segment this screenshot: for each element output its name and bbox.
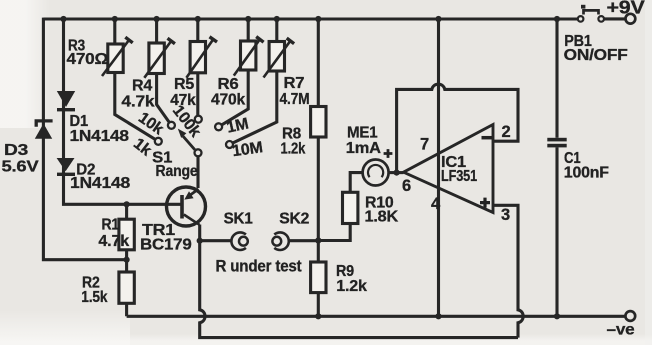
node bottom rail / pin4 line bbox=[435, 313, 441, 319]
svg-text:1.2k: 1.2k bbox=[281, 141, 306, 158]
switch S1 contact 1k bbox=[155, 138, 162, 145]
svg-text:2: 2 bbox=[502, 123, 511, 141]
svg-text:Range: Range bbox=[156, 163, 198, 180]
wire IC1 pin 3 stub down to return line with hop over bottom rail bbox=[493, 205, 523, 337]
svg-text:D3: D3 bbox=[4, 142, 28, 159]
wire R4 branch to S1 contact 10k bbox=[157, 19, 170, 122]
svg-text:R6: R6 bbox=[218, 76, 239, 93]
wire R1/R2 branch bbox=[125, 204, 128, 316]
svg-text:470Ω: 470Ω bbox=[67, 51, 109, 68]
svg-text:ME1: ME1 bbox=[347, 124, 378, 141]
node R1 top bbox=[124, 201, 130, 207]
wire ME1 output to IC1 pin 6 bbox=[389, 171, 404, 174]
svg-text:BC179: BC179 bbox=[140, 237, 192, 254]
resistor R3 body bbox=[108, 44, 123, 73]
resistor R2 body bbox=[119, 272, 134, 303]
preset arrow R7 bbox=[264, 41, 291, 78]
zener diode D3 bbox=[35, 121, 53, 139]
svg-text:R5: R5 bbox=[174, 76, 194, 93]
svg-text:1N4148: 1N4148 bbox=[70, 175, 130, 192]
node TR1 collector / SK1 bbox=[197, 238, 203, 244]
capacitor C1 plates bbox=[547, 138, 566, 148]
svg-text:470k: 470k bbox=[211, 92, 245, 109]
wire R5 branch to S1 contact 100k bbox=[196, 19, 199, 116]
svg-text:1N4148: 1N4148 bbox=[70, 128, 130, 145]
wire D1/D2 branch down to TR1 base bbox=[64, 19, 181, 204]
socket SK1 bbox=[231, 232, 247, 250]
plus sign at ME1 bbox=[384, 149, 393, 158]
switch S1 wiper arrow bbox=[178, 129, 195, 150]
resistor R7 body bbox=[269, 42, 284, 72]
op-amp U1 IC1 triangle bbox=[404, 125, 494, 213]
svg-text:1mA: 1mA bbox=[346, 140, 382, 157]
wire feedback loop pin 6 to pin 2 with hop over pin7 line bbox=[397, 84, 518, 172]
wire SK2 to R8/R9 node bbox=[288, 239, 318, 242]
svg-text:4.7k: 4.7k bbox=[121, 94, 154, 111]
preset arrow R3 bbox=[102, 40, 129, 76]
wire S1 pole to TR1 emitter bbox=[196, 156, 199, 188]
transistor TR1 bbox=[167, 187, 206, 226]
svg-text:R1: R1 bbox=[102, 217, 120, 234]
svg-text:1.5k: 1.5k bbox=[81, 289, 107, 306]
switch S1 pole bbox=[195, 149, 202, 156]
svg-text:4: 4 bbox=[431, 195, 441, 213]
meter ME1 bbox=[363, 160, 389, 186]
resistor R9 body bbox=[311, 262, 326, 293]
preset arrow R4 bbox=[144, 41, 171, 78]
node bottom rail / C1 bbox=[554, 313, 560, 319]
preset arrow R5 bbox=[186, 39, 213, 77]
resistor R8 body bbox=[311, 107, 326, 138]
svg-text:ON/OFF: ON/OFF bbox=[564, 47, 628, 64]
node ME1 / pin 6 / feedback bbox=[394, 170, 400, 176]
diode D2 bbox=[57, 158, 75, 176]
socket SK2 bbox=[272, 232, 288, 250]
wire R8/R9 node to R10 and up to ME1 bbox=[318, 173, 362, 241]
svg-text:6: 6 bbox=[402, 177, 411, 195]
node SK2 / R8 / R9 / R10 bbox=[315, 237, 321, 243]
node top rail / R3 bbox=[112, 16, 118, 22]
svg-text:4.7M: 4.7M bbox=[280, 91, 310, 108]
node top rail / D1 branch bbox=[60, 16, 66, 22]
svg-text:1.8K: 1.8K bbox=[365, 209, 399, 226]
node top rail / R7 bbox=[274, 16, 280, 22]
svg-text:4.7k: 4.7k bbox=[98, 233, 129, 250]
svg-text:SK1: SK1 bbox=[224, 210, 253, 227]
node top rail / R8 bbox=[315, 16, 321, 22]
node top rail / pin7 line bbox=[435, 16, 441, 22]
node top rail / R4 bbox=[154, 16, 160, 22]
wire C1 branch lower bbox=[555, 147, 558, 316]
resistor R4 body bbox=[149, 43, 164, 74]
svg-text:R4: R4 bbox=[132, 78, 152, 95]
svg-text:LF351: LF351 bbox=[441, 168, 477, 185]
plus sign inside IC1 bbox=[480, 198, 490, 208]
node top rail / C1 bbox=[554, 16, 560, 22]
minus sign inside IC1 bbox=[482, 136, 493, 140]
node R1/R2 junction bbox=[124, 257, 130, 263]
resistor R1 body bbox=[119, 219, 134, 250]
resistor R6 body bbox=[241, 41, 256, 70]
terminal -ve bbox=[625, 311, 635, 321]
wire R8/R9 branch top rail to bottom rail bbox=[317, 19, 320, 316]
switch S1 contact 10M bbox=[226, 141, 233, 148]
resistor R10 body bbox=[343, 192, 358, 223]
preset arrow R6 bbox=[234, 39, 260, 75]
svg-text:1.2k: 1.2k bbox=[336, 278, 367, 295]
wire TR1 collector down, hop over bottom rail, return line to pin 3 bbox=[200, 225, 518, 338]
svg-text:R under test: R under test bbox=[216, 257, 303, 275]
wire R3 branch to S1 contact 1k bbox=[115, 19, 156, 139]
node top rail / R6 bbox=[245, 16, 251, 22]
svg-text:R7: R7 bbox=[284, 75, 305, 92]
svg-text:–ve: –ve bbox=[607, 322, 635, 339]
wire left branch through D3 down to R1/R2 node bbox=[43, 18, 126, 260]
svg-text:SK2: SK2 bbox=[279, 210, 309, 227]
wire R6 branch to S1 contact 1M bbox=[221, 19, 248, 125]
svg-text:5.6V: 5.6V bbox=[2, 159, 40, 176]
switch S1 contact 100k bbox=[195, 116, 202, 123]
node bottom rail / R9 bbox=[315, 313, 321, 319]
wire TR1 collector node to SK1 bbox=[200, 239, 232, 242]
svg-text:3: 3 bbox=[501, 206, 510, 224]
diode D1 bbox=[57, 91, 75, 111]
wire IC1 pin 7 / pin 4 supply line bbox=[437, 19, 440, 316]
wire top +9V rail bbox=[43, 17, 577, 20]
wire R7 branch to S1 contact 10M bbox=[233, 19, 277, 143]
pushbutton PB1 bbox=[578, 5, 604, 22]
wire bottom -ve rail bbox=[127, 315, 626, 318]
wire C1 branch upper bbox=[555, 19, 558, 138]
switch S1 contact 1M bbox=[215, 123, 222, 130]
svg-text:7: 7 bbox=[420, 135, 429, 153]
switch S1 contact 10k bbox=[168, 122, 175, 129]
resistor R5 body bbox=[190, 42, 205, 73]
svg-text:100nF: 100nF bbox=[564, 164, 609, 181]
terminal +9V bbox=[626, 14, 636, 24]
svg-text:+9V: +9V bbox=[607, 0, 645, 18]
wire PB1 to +9V terminal bbox=[604, 17, 626, 20]
node top rail / R5 bbox=[195, 16, 201, 22]
